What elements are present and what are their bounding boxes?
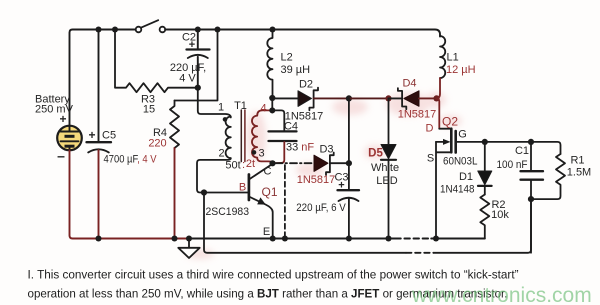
node bottom rail Q2 source [433, 235, 439, 241]
svg-text:White: White [371, 162, 399, 174]
svg-text:33 nF: 33 nF [286, 142, 314, 154]
transformer T1 primary winding (pin1-pin2) [226, 117, 231, 159]
svg-text:C1: C1 [515, 145, 529, 157]
node top rail C5 tap [95, 26, 101, 32]
node gate / D1 [482, 139, 488, 145]
svg-text:D1: D1 [459, 171, 473, 183]
mosfet Q2 [436, 129, 485, 239]
node top rail L2 tap [269, 26, 275, 32]
svg-text:1: 1 [218, 102, 224, 114]
capacitor C5 [87, 30, 112, 239]
svg-text:60N03L: 60N03L [443, 156, 478, 168]
svg-text:L1: L1 [447, 52, 459, 64]
svg-text:12 µH: 12 µH [446, 64, 476, 76]
svg-text:S: S [427, 153, 434, 165]
svg-text:T1: T1 [234, 100, 247, 112]
wire D2 cathode to C3 node (dark red) [314, 97, 349, 99]
svg-text:1N5817: 1N5817 [398, 109, 437, 121]
capacitor C1 [521, 142, 544, 253]
capacitor C2 [187, 30, 210, 88]
svg-text:2: 2 [218, 148, 224, 160]
node top rail R3 tap [112, 26, 118, 32]
node rail D5 tap (dark red) [385, 95, 391, 101]
svg-text:+: + [338, 180, 344, 192]
wire D3 cathode to C3 node [330, 162, 349, 164]
diode D3 (schottky) [314, 153, 334, 175]
svg-text:10k: 10k [491, 209, 509, 221]
node pin4/C4 [269, 107, 275, 113]
wire dashed vertical collector to ground rail [284, 165, 286, 239]
svg-text:D4: D4 [402, 78, 416, 90]
svg-text:1N4148: 1N4148 [440, 184, 475, 196]
node bottom rail R4 [171, 235, 177, 241]
svg-text:3: 3 [258, 148, 264, 160]
wire kick-start right to C1/R1 bottom [434, 199, 532, 253]
wire collector node to D3 (dash-dot) [276, 162, 314, 164]
node bottom rail emitter [270, 235, 276, 241]
wire L2 node to D2 anode [272, 97, 298, 99]
svg-text:C5: C5 [102, 130, 116, 142]
svg-text:–: – [57, 148, 65, 164]
switch S1 [136, 20, 166, 32]
mosfet Q2 drain lead (dark red) [437, 98, 440, 128]
wire bottom rail right to R2 [431, 238, 485, 240]
wire T1 pin 4 lead [257, 110, 272, 115]
node C1 bottom / R1 [528, 196, 534, 202]
resistor R1 [531, 154, 565, 199]
svg-text:D2: D2 [299, 79, 313, 91]
svg-text:E: E [263, 226, 270, 238]
inductor L1 [440, 36, 445, 78]
Q1 collector lead [249, 165, 272, 180]
svg-text:Q1: Q1 [261, 185, 277, 199]
svg-text:50t: 50t [225, 160, 240, 172]
wire L1 bottom to node (dark red) [437, 78, 441, 98]
svg-text:39 µH: 39 µH [281, 64, 311, 76]
svg-text:2t: 2t [246, 158, 255, 170]
svg-text:R1: R1 [570, 155, 584, 167]
svg-text:1.5M: 1.5M [567, 167, 591, 179]
capacitor C4 [269, 131, 297, 141]
node rail D2 anode / L2 [269, 95, 275, 101]
wire T1 pin 2 to base node [197, 158, 231, 192]
svg-text:I. This converter circuit uses: I. This converter circuit uses a third w… [28, 268, 519, 282]
svg-text:C: C [264, 166, 272, 178]
node bottom rail ground tap [186, 235, 192, 241]
svg-text:+: + [88, 128, 95, 142]
wire gate node to C1 and R1 [485, 142, 561, 154]
T1 core lines [240, 110, 242, 162]
wire kick-start dashed segment [406, 252, 434, 254]
svg-text:G: G [458, 129, 467, 141]
svg-text:220 µF, 6 V: 220 µF, 6 V [296, 202, 346, 214]
wire junction A to T1 pin 1 [198, 88, 231, 118]
resistor R4 [170, 101, 179, 149]
diode D2 (schottky) [298, 88, 318, 111]
T1 phasing dot pin3 [252, 150, 257, 155]
wire rail C3 tap to D5 tap (dark red) [349, 97, 389, 99]
svg-text:D: D [426, 123, 434, 135]
node rail C3 tap [346, 95, 352, 101]
node bottom rail C5 [95, 235, 101, 241]
svg-text:100 nF: 100 nF [497, 159, 528, 171]
resistor R3 [115, 30, 198, 93]
wire pin4 node up to D2 rail [271, 98, 273, 110]
node C3 top [346, 160, 352, 166]
battery BT1 [57, 126, 82, 151]
svg-text:L2: L2 [281, 52, 293, 64]
svg-text:Q2: Q2 [442, 115, 458, 129]
svg-text:4: 4 [260, 103, 266, 115]
wire top rail left (battery + to switch) [70, 30, 136, 127]
wire battery minus to bottom rail (dark red) [70, 150, 190, 238]
wire Q1 base [204, 192, 248, 194]
node bottom rail D5 [385, 235, 391, 241]
svg-text:www.cntronics.com: www.cntronics.com [411, 284, 592, 305]
resistor R2 [480, 195, 489, 239]
wire R4 feed from top rail [175, 30, 218, 101]
wire C4 bottom to collector node (dark red) [275, 142, 284, 163]
wire rail D5 tap to D4 cathode [389, 97, 403, 99]
wire pin4 node to C4 top [272, 110, 284, 130]
node top rail R4 feed tap [214, 26, 220, 32]
svg-text:220: 220 [148, 138, 166, 150]
Q1 emitter lead with arrow [249, 197, 273, 239]
node top rail C2 tap [195, 26, 201, 32]
wire top rail right (switch to L1 corner) [165, 30, 440, 37]
wire kick-start third wire from base node down [204, 193, 406, 253]
svg-text:B: B [239, 182, 246, 194]
svg-text:2SC1983: 2SC1983 [206, 206, 250, 218]
ground symbol [178, 239, 199, 259]
svg-text:+: + [189, 39, 195, 51]
svg-text:1N5817: 1N5817 [285, 111, 324, 123]
diode D4 (schottky, pointing left) [398, 88, 419, 109]
svg-text:4700 µF, 4 V: 4700 µF, 4 V [104, 154, 158, 166]
wire D4 anode to L1/drain node (dark red) [419, 97, 437, 99]
T1 phasing dot pin1 [223, 117, 228, 122]
node base junction [201, 189, 207, 195]
svg-text:250 mV: 250 mV [35, 104, 74, 116]
node bottom rail dashed vert [282, 235, 288, 241]
inductor L2 [267, 30, 272, 99]
svg-text:4 V: 4 V [179, 73, 196, 85]
node L1 / D4 / Q2 drain (dark red) [433, 95, 439, 101]
svg-text::: : [242, 159, 245, 171]
capacitor C3 [338, 163, 360, 238]
wire T1 pin 3 lead to collector node [257, 158, 272, 164]
svg-text:15: 15 [143, 104, 155, 116]
wire bottom rail middle [189, 238, 395, 240]
svg-text:LED: LED [376, 175, 397, 187]
node bottom rail C3 [346, 235, 352, 241]
wire bottom rail dashed segment [395, 238, 431, 240]
wire C3 node vertical [348, 98, 350, 163]
transformer T1 secondary winding (pin4-pin3) dark red [252, 116, 257, 158]
svg-text:D3: D3 [319, 144, 333, 156]
transistor Q1 base bar [248, 175, 251, 201]
node collector C [269, 160, 275, 166]
svg-text:D5: D5 [368, 148, 383, 160]
diode D1 [478, 142, 492, 195]
svg-text:1N5817: 1N5817 [297, 174, 336, 186]
scan smudges (decorative) [186, 92, 462, 259]
node junction A (R3/C2/pin1) [195, 85, 201, 91]
node C1 top [528, 139, 534, 145]
led D5 [381, 98, 396, 238]
wire R4 bottom to rail (dark red) [174, 148, 176, 239]
